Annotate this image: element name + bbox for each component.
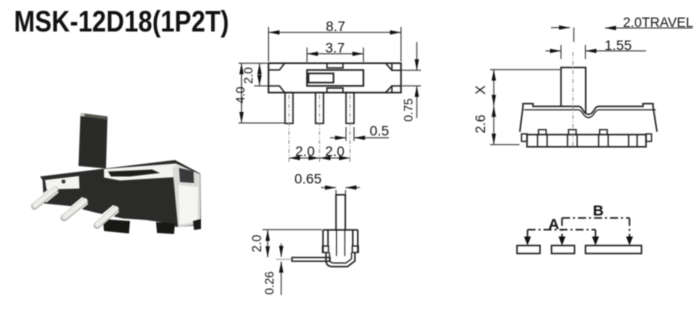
svg-text:2.0TRAVEL: 2.0TRAVEL <box>623 15 694 30</box>
svg-text:X: X <box>472 85 488 95</box>
svg-text:2.0: 2.0 <box>325 143 345 159</box>
svg-text:B: B <box>593 203 604 220</box>
svg-text:4.0: 4.0 <box>234 86 248 103</box>
svg-text:0.26: 0.26 <box>263 271 277 295</box>
svg-text:0.65: 0.65 <box>294 170 321 186</box>
svg-text:2.6: 2.6 <box>473 115 488 134</box>
svg-text:A: A <box>548 216 559 233</box>
svg-text:2.0: 2.0 <box>250 235 264 252</box>
svg-text:3.7: 3.7 <box>325 40 345 56</box>
svg-text:2.0: 2.0 <box>242 67 256 84</box>
svg-text:1.55: 1.55 <box>605 37 632 53</box>
svg-text:8.7: 8.7 <box>326 18 346 34</box>
svg-text:0.75: 0.75 <box>402 98 416 122</box>
svg-text:MSK-12D18(1P2T): MSK-12D18(1P2T) <box>14 6 229 39</box>
svg-text:2.0: 2.0 <box>295 143 315 159</box>
svg-text:0.5: 0.5 <box>370 122 390 138</box>
